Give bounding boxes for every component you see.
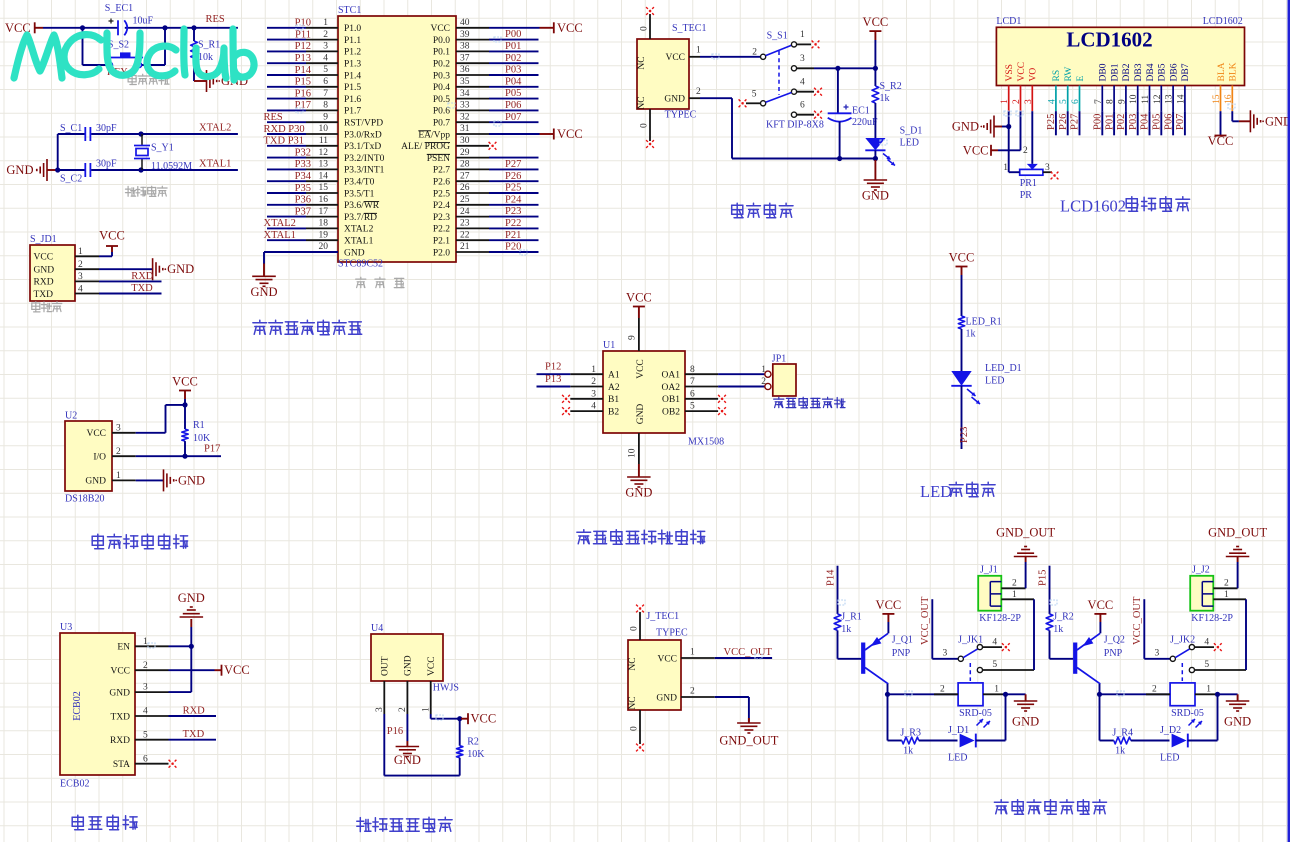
svg-text:P25: P25 <box>1046 114 1057 130</box>
svg-text:1k: 1k <box>1115 746 1125 757</box>
svg-text:1: 1 <box>591 365 596 375</box>
svg-text:EA/Vpp: EA/Vpp <box>418 130 450 140</box>
svg-text:P0.0: P0.0 <box>433 36 450 46</box>
svg-text:P07: P07 <box>505 112 521 123</box>
svg-text:31: 31 <box>460 124 470 134</box>
svg-text:P03: P03 <box>505 65 521 76</box>
svg-text:S_C2: S_C2 <box>60 174 82 185</box>
svg-text:RXD: RXD <box>34 278 54 288</box>
svg-text:P3.7/RD: P3.7/RD <box>344 213 377 223</box>
svg-text:LCD1602: LCD1602 <box>1066 28 1152 52</box>
svg-text:5: 5 <box>1204 660 1209 670</box>
svg-text:VCC: VCC <box>863 15 889 29</box>
svg-text:40: 40 <box>460 18 470 28</box>
svg-text:VCC: VCC <box>636 359 646 379</box>
svg-text:GND: GND <box>952 120 979 134</box>
svg-text:19: 19 <box>319 230 329 240</box>
svg-text:MX1508: MX1508 <box>688 437 724 448</box>
svg-text:NC: NC <box>637 96 647 109</box>
svg-text:XTAL2: XTAL2 <box>199 123 231 134</box>
svg-text:VO: VO <box>1029 68 1039 82</box>
svg-text:KFT DIP-8X8: KFT DIP-8X8 <box>766 120 824 131</box>
svg-text:2: 2 <box>761 377 766 387</box>
svg-text:S_R2: S_R2 <box>880 81 902 92</box>
svg-text:RXD P30: RXD P30 <box>264 124 305 135</box>
svg-text:1: 1 <box>1003 163 1008 173</box>
svg-text:J_J2: J_J2 <box>1192 565 1210 576</box>
svg-text:XTAL1: XTAL1 <box>264 230 296 241</box>
svg-text:P11: P11 <box>295 29 311 40</box>
svg-text:1: 1 <box>761 365 766 375</box>
svg-text:P27: P27 <box>505 159 521 170</box>
svg-text:GND: GND <box>656 693 677 703</box>
svg-text:P16: P16 <box>387 726 403 737</box>
svg-text:3: 3 <box>1045 163 1050 173</box>
svg-text:GND: GND <box>404 655 414 676</box>
svg-text:VCC: VCC <box>224 663 250 677</box>
svg-text:RW: RW <box>1064 67 1074 82</box>
svg-text:GND: GND <box>344 248 365 258</box>
svg-text:DB2: DB2 <box>1122 63 1132 81</box>
svg-text:2: 2 <box>591 377 596 387</box>
svg-text:220uF: 220uF <box>852 117 878 128</box>
svg-text:P2.1: P2.1 <box>433 237 450 247</box>
svg-text:2: 2 <box>1152 684 1157 694</box>
svg-text:NC: NC <box>628 657 638 670</box>
svg-text:3: 3 <box>1155 649 1160 659</box>
svg-text:P13: P13 <box>295 53 311 64</box>
svg-text:U3: U3 <box>60 622 72 633</box>
svg-text:VCC_OUT: VCC_OUT <box>724 647 773 658</box>
svg-text:P04: P04 <box>1140 113 1151 130</box>
svg-text:PSEN: PSEN <box>427 154 450 164</box>
svg-text:E: E <box>1076 76 1086 82</box>
svg-text:J_R3: J_R3 <box>900 728 921 739</box>
svg-text:LED: LED <box>1160 753 1179 764</box>
svg-text:25: 25 <box>460 195 470 205</box>
svg-text:GND: GND <box>85 477 106 487</box>
svg-text:J_J1: J_J1 <box>980 565 998 576</box>
svg-text:29: 29 <box>460 148 470 158</box>
svg-text:4: 4 <box>1047 99 1057 104</box>
svg-text:RXD: RXD <box>110 736 130 746</box>
svg-text:2: 2 <box>323 30 328 40</box>
svg-text:P2.3: P2.3 <box>433 213 450 223</box>
svg-text:S_TEC1: S_TEC1 <box>672 23 706 34</box>
svg-text:1: 1 <box>1206 684 1211 694</box>
svg-text:23: 23 <box>460 219 470 229</box>
svg-text:R2: R2 <box>467 737 479 748</box>
svg-text:3: 3 <box>800 54 805 64</box>
svg-text:6: 6 <box>143 754 148 764</box>
svg-text:2: 2 <box>398 707 408 712</box>
svg-text:P35: P35 <box>295 183 311 194</box>
svg-text:VCC: VCC <box>963 143 989 157</box>
svg-text:VCC: VCC <box>1017 62 1027 82</box>
svg-text:13: 13 <box>319 160 329 170</box>
svg-text:GND: GND <box>34 266 55 276</box>
svg-text:BLA: BLA <box>1217 62 1227 81</box>
svg-text:10: 10 <box>1129 94 1139 104</box>
svg-text:HWJS: HWJS <box>433 683 459 694</box>
svg-text:4: 4 <box>591 402 596 412</box>
svg-text:P0.2: P0.2 <box>433 60 450 70</box>
svg-text:4: 4 <box>992 637 997 647</box>
svg-text:P03: P03 <box>1128 114 1139 130</box>
svg-text:10: 10 <box>319 124 329 134</box>
svg-text:P21: P21 <box>505 230 521 241</box>
svg-text:S_R1: S_R1 <box>198 40 220 51</box>
svg-text:A1: A1 <box>608 371 620 381</box>
svg-text:OUT: OUT <box>381 656 391 676</box>
svg-text:P02: P02 <box>1116 114 1127 130</box>
svg-text:U2: U2 <box>65 411 77 422</box>
svg-text:R1: R1 <box>193 420 205 431</box>
svg-text:1: 1 <box>1000 99 1010 104</box>
svg-text:P2.4: P2.4 <box>433 201 450 211</box>
svg-text:17: 17 <box>319 207 329 217</box>
svg-text:11: 11 <box>319 136 328 146</box>
svg-text:VCC: VCC <box>626 291 652 305</box>
svg-text:ECB02: ECB02 <box>60 779 89 790</box>
svg-text:27: 27 <box>460 171 470 181</box>
svg-text:24: 24 <box>460 207 470 217</box>
svg-text:P12: P12 <box>295 41 311 52</box>
svg-text:LCD1602: LCD1602 <box>1203 16 1243 27</box>
svg-text:DB1: DB1 <box>1110 63 1120 81</box>
svg-text:1: 1 <box>143 637 148 647</box>
svg-text:33: 33 <box>460 101 470 111</box>
svg-text:1: 1 <box>800 30 805 40</box>
svg-text:B1: B1 <box>608 395 619 405</box>
svg-text:6: 6 <box>1071 99 1081 104</box>
svg-text:JP1: JP1 <box>772 354 786 365</box>
svg-text:RES: RES <box>206 14 225 25</box>
svg-text:VCC: VCC <box>665 53 685 63</box>
svg-text:PNP: PNP <box>892 648 911 659</box>
svg-text:P24: P24 <box>505 194 522 205</box>
svg-text:LED: LED <box>948 753 967 764</box>
svg-text:J_R2: J_R2 <box>1053 611 1074 622</box>
svg-text:SRD-05: SRD-05 <box>959 708 992 719</box>
svg-text:1: 1 <box>116 471 121 481</box>
svg-text:P25: P25 <box>505 183 521 194</box>
svg-text:1: 1 <box>690 648 695 658</box>
svg-text:GND: GND <box>6 163 33 177</box>
svg-text:RES: RES <box>264 112 283 123</box>
svg-text:XTAL2: XTAL2 <box>344 225 374 235</box>
svg-text:OB2: OB2 <box>662 407 680 417</box>
svg-text:VSS: VSS <box>1005 64 1015 81</box>
svg-text:J_Q2: J_Q2 <box>1104 635 1125 646</box>
svg-text:5: 5 <box>143 730 148 740</box>
svg-text:5: 5 <box>323 65 328 75</box>
svg-text:S_EC1: S_EC1 <box>105 3 133 14</box>
svg-text:P3.0/RxD: P3.0/RxD <box>344 130 382 140</box>
svg-text:P2.2: P2.2 <box>433 225 450 235</box>
svg-text:28: 28 <box>460 160 470 170</box>
svg-text:GND: GND <box>664 94 685 104</box>
svg-text:VCC: VCC <box>172 375 198 389</box>
svg-text:VCC: VCC <box>949 251 975 265</box>
svg-text:TXD: TXD <box>34 290 54 300</box>
svg-text:P01: P01 <box>1104 114 1115 130</box>
svg-text:S_D1: S_D1 <box>900 126 923 137</box>
svg-text:RXD: RXD <box>131 271 154 282</box>
svg-text:GND: GND <box>178 473 205 487</box>
svg-text:DB3: DB3 <box>1134 63 1144 81</box>
svg-text:GND: GND <box>109 688 130 698</box>
svg-text:14: 14 <box>1176 94 1186 104</box>
svg-text:J_R4: J_R4 <box>1112 728 1133 739</box>
svg-text:1k: 1k <box>1053 624 1063 635</box>
svg-text:15: 15 <box>319 183 329 193</box>
svg-text:LED_D1: LED_D1 <box>985 363 1022 374</box>
svg-text:GND: GND <box>1012 715 1039 729</box>
svg-text:S_S2: S_S2 <box>108 39 129 50</box>
svg-text:2: 2 <box>1023 146 1028 156</box>
svg-text:39: 39 <box>460 30 470 40</box>
svg-text:2: 2 <box>690 687 695 697</box>
svg-text:3: 3 <box>943 649 948 659</box>
svg-text:J_D2: J_D2 <box>1160 725 1181 736</box>
svg-text:OA1: OA1 <box>662 371 681 381</box>
svg-text:U1: U1 <box>603 340 615 351</box>
svg-text:DB4: DB4 <box>1146 63 1156 81</box>
svg-text:P16: P16 <box>295 88 311 99</box>
svg-text:P0.7: P0.7 <box>433 119 450 129</box>
svg-text:12: 12 <box>319 148 329 158</box>
svg-text:14: 14 <box>319 171 329 181</box>
svg-text:30: 30 <box>460 136 470 146</box>
svg-text:GND_OUT: GND_OUT <box>996 526 1055 540</box>
svg-text:8: 8 <box>1106 99 1116 104</box>
svg-text:TYPEC: TYPEC <box>656 628 688 639</box>
svg-text:J_D1: J_D1 <box>948 725 969 736</box>
svg-text:30pF: 30pF <box>96 123 117 134</box>
svg-text:LCD1602: LCD1602 <box>1060 197 1126 216</box>
svg-text:6: 6 <box>690 389 695 399</box>
svg-text:P06: P06 <box>505 100 521 111</box>
svg-text:GND: GND <box>1265 114 1290 128</box>
svg-text:GND: GND <box>1224 715 1251 729</box>
svg-text:GND: GND <box>862 189 889 203</box>
svg-text:S_Y1: S_Y1 <box>151 143 174 154</box>
svg-text:VCC: VCC <box>34 253 54 263</box>
svg-text:STA: STA <box>113 760 130 770</box>
svg-text:J_Q1: J_Q1 <box>892 635 913 646</box>
svg-text:XTAL2: XTAL2 <box>264 218 296 229</box>
svg-text:0: 0 <box>640 123 650 128</box>
svg-text:3: 3 <box>375 707 385 712</box>
svg-text:0: 0 <box>630 726 640 731</box>
svg-text:BLK: BLK <box>1229 62 1239 81</box>
svg-text:STC1: STC1 <box>338 5 361 16</box>
svg-text:4: 4 <box>800 78 805 88</box>
svg-text:1: 1 <box>1012 590 1017 600</box>
svg-text:1: 1 <box>1224 590 1229 600</box>
svg-text:VCC: VCC <box>876 598 902 612</box>
svg-text:P06: P06 <box>1163 114 1174 130</box>
svg-text:22: 22 <box>460 230 470 240</box>
svg-text:P14: P14 <box>825 569 836 586</box>
svg-text:10: 10 <box>628 448 638 458</box>
svg-text:P36: P36 <box>295 195 311 206</box>
svg-text:2: 2 <box>1224 578 1229 588</box>
svg-text:16: 16 <box>319 195 329 205</box>
svg-text:4: 4 <box>78 284 83 294</box>
svg-text:3: 3 <box>78 272 83 282</box>
svg-text:S_S1: S_S1 <box>767 30 788 41</box>
svg-text:DB7: DB7 <box>1181 63 1191 81</box>
svg-text:PNP: PNP <box>1104 648 1123 659</box>
svg-text:VCC: VCC <box>557 127 583 141</box>
svg-text:P1.4: P1.4 <box>344 71 361 81</box>
svg-text:GND: GND <box>178 591 205 605</box>
svg-text:PR1: PR1 <box>1020 178 1037 189</box>
svg-text:1: 1 <box>421 707 431 712</box>
svg-text:DB0: DB0 <box>1099 63 1109 81</box>
svg-text:RST/VPD: RST/VPD <box>344 119 383 129</box>
svg-text:2: 2 <box>1012 99 1022 104</box>
svg-text:XTAL1: XTAL1 <box>199 159 231 170</box>
svg-text:38: 38 <box>460 42 470 52</box>
svg-text:11: 11 <box>1141 95 1151 104</box>
svg-text:P1.6: P1.6 <box>344 95 361 105</box>
svg-text:7: 7 <box>1094 99 1104 104</box>
svg-text:P05: P05 <box>1152 114 1163 130</box>
svg-text:TXD P31: TXD P31 <box>264 136 305 147</box>
svg-text:26: 26 <box>460 183 470 193</box>
svg-text:VCC: VCC <box>430 24 450 34</box>
svg-text:0: 0 <box>640 26 650 31</box>
svg-text:P26: P26 <box>505 171 521 182</box>
svg-text:LED: LED <box>920 482 952 501</box>
svg-text:P32: P32 <box>295 147 311 158</box>
svg-text:LED: LED <box>900 138 919 149</box>
svg-text:STC89C52: STC89C52 <box>338 259 383 270</box>
svg-text:20: 20 <box>319 242 329 252</box>
svg-text:VCC: VCC <box>471 712 497 726</box>
svg-text:VCC_OUT: VCC_OUT <box>920 596 931 645</box>
svg-text:P3.4/T0: P3.4/T0 <box>344 178 375 188</box>
svg-text:SRD-05: SRD-05 <box>1171 708 1204 719</box>
svg-text:GND_OUT: GND_OUT <box>1208 526 1267 540</box>
svg-text:S_JD1: S_JD1 <box>30 234 57 245</box>
svg-text:ALE/ PROG: ALE/ PROG <box>401 142 450 152</box>
svg-text:KF128-2P: KF128-2P <box>979 613 1021 624</box>
svg-text:P3.3/INT1: P3.3/INT1 <box>344 166 385 176</box>
svg-text:OA2: OA2 <box>662 383 681 393</box>
svg-text:VCC: VCC <box>557 21 583 35</box>
svg-text:35: 35 <box>460 77 470 87</box>
svg-text:ECB02: ECB02 <box>72 691 83 720</box>
svg-text:P33: P33 <box>295 159 311 170</box>
svg-text:DB5: DB5 <box>1158 63 1168 81</box>
svg-text:P17: P17 <box>295 100 311 111</box>
svg-text:6: 6 <box>800 101 805 111</box>
svg-text:7: 7 <box>323 89 328 99</box>
svg-text:1k: 1k <box>966 329 976 340</box>
svg-text:2: 2 <box>940 684 945 694</box>
svg-text:2: 2 <box>116 447 121 457</box>
svg-text:P00: P00 <box>505 29 521 40</box>
svg-text:P02: P02 <box>505 53 521 64</box>
svg-text:1: 1 <box>78 247 83 257</box>
svg-text:9: 9 <box>323 112 328 122</box>
svg-text:GND: GND <box>636 404 646 425</box>
svg-text:1: 1 <box>994 684 999 694</box>
svg-text:P23: P23 <box>505 206 521 217</box>
svg-text:OB1: OB1 <box>662 395 680 405</box>
svg-text:P07: P07 <box>1175 114 1186 130</box>
svg-text:P34: P34 <box>295 171 312 182</box>
svg-text:34: 34 <box>460 89 470 99</box>
svg-text:11.0592M: 11.0592M <box>151 161 192 172</box>
svg-text:VCC: VCC <box>657 654 677 664</box>
svg-text:GND: GND <box>250 285 277 299</box>
svg-text:J_JK2: J_JK2 <box>1170 634 1195 645</box>
svg-text:VCC: VCC <box>427 656 437 676</box>
svg-text:9: 9 <box>628 335 638 340</box>
svg-text:VCC: VCC <box>110 667 130 677</box>
svg-text:2: 2 <box>696 87 701 97</box>
svg-text:P2.7: P2.7 <box>433 166 450 176</box>
svg-text:VCC: VCC <box>86 429 106 439</box>
svg-text:P17: P17 <box>204 444 220 455</box>
svg-text:8: 8 <box>690 365 695 375</box>
svg-text:P1.3: P1.3 <box>344 60 361 70</box>
svg-text:TXD: TXD <box>131 283 153 294</box>
svg-text:P13: P13 <box>545 374 561 385</box>
svg-text:P12: P12 <box>545 362 561 373</box>
svg-text:P27: P27 <box>1070 114 1081 130</box>
svg-text:EN: EN <box>117 643 130 653</box>
svg-text:18: 18 <box>319 219 329 229</box>
svg-text:5: 5 <box>992 660 997 670</box>
svg-text:LED_R1: LED_R1 <box>966 317 1002 328</box>
svg-text:16: 16 <box>1224 94 1234 104</box>
svg-text:0: 0 <box>630 626 640 631</box>
svg-text:9: 9 <box>1117 99 1127 104</box>
svg-text:LED: LED <box>985 376 1004 387</box>
svg-text:P1.7: P1.7 <box>344 107 361 117</box>
svg-text:4: 4 <box>143 707 148 717</box>
svg-text:P3.6/WR: P3.6/WR <box>344 201 380 211</box>
svg-text:2: 2 <box>752 48 757 58</box>
svg-text:10uF: 10uF <box>133 16 154 27</box>
svg-text:10K: 10K <box>193 433 211 444</box>
svg-text:XTAL1: XTAL1 <box>344 237 374 247</box>
svg-text:5: 5 <box>690 402 695 412</box>
svg-text:P00: P00 <box>1093 114 1104 130</box>
svg-text:RS: RS <box>1052 70 1062 82</box>
svg-text:10k: 10k <box>198 52 213 63</box>
svg-text:7: 7 <box>690 377 695 387</box>
svg-text:U4: U4 <box>371 623 383 634</box>
svg-text:P0.6: P0.6 <box>433 107 450 117</box>
svg-text:1: 1 <box>323 18 328 28</box>
svg-text:P1.5: P1.5 <box>344 83 361 93</box>
svg-text:RXD: RXD <box>183 706 206 717</box>
svg-text:3: 3 <box>323 42 328 52</box>
svg-text:TYPEC: TYPEC <box>665 110 697 121</box>
svg-text:2: 2 <box>143 661 148 671</box>
svg-text:37: 37 <box>460 53 470 63</box>
svg-text:P01: P01 <box>505 41 521 52</box>
svg-text:P3.2/INT0: P3.2/INT0 <box>344 154 385 164</box>
svg-text:J_TEC1: J_TEC1 <box>646 611 679 622</box>
